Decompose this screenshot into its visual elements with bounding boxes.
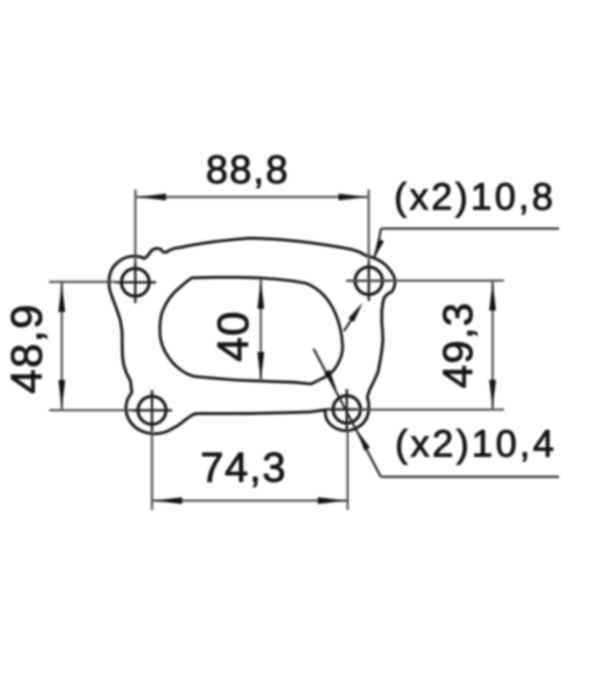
centerlines top-left hole <box>115 262 156 303</box>
dimension 88,8 extension lines <box>135 190 368 264</box>
dimension 48,9 line <box>61 282 63 410</box>
label (x2)10,8 leader arrows <box>374 239 385 260</box>
svg-text:(x2)10,4: (x2)10,4 <box>395 424 557 466</box>
label (x2)10,8 underline <box>381 227 559 229</box>
dimension 40 line <box>260 279 262 382</box>
inner exhaust port opening <box>160 277 343 384</box>
bolt hole top-right <box>355 267 382 294</box>
dimension 48,9 extension lines <box>49 282 133 410</box>
bolt hole bottom-left <box>138 396 166 424</box>
svg-text:48,9: 48,9 <box>3 303 52 393</box>
gasket outer outline <box>109 238 395 434</box>
dimension 48,9 arrows <box>58 283 65 312</box>
dimension 49,3 extension lines <box>346 281 504 410</box>
svg-text:74,3: 74,3 <box>200 444 287 491</box>
dimension 49,3 line <box>492 281 494 410</box>
svg-text:88,8: 88,8 <box>206 148 289 192</box>
centerlines bottom-right hole <box>326 389 368 430</box>
bolt hole top-left <box>121 268 149 296</box>
label (x2)10,4 underline <box>381 476 559 478</box>
label (x2)10,4 leader <box>314 349 381 477</box>
svg-text:49,3: 49,3 <box>434 302 481 389</box>
dimension 40 arrows <box>257 280 264 309</box>
label (x2)10,8 leader <box>374 229 381 259</box>
centerlines top-right hole <box>348 261 390 301</box>
bolt hole bottom-right <box>333 396 360 423</box>
centerlines bottom-left hole <box>131 390 172 431</box>
dimension 88,8 arrows <box>137 194 166 201</box>
dimension 74,3 extension lines <box>152 430 348 510</box>
label (x2)10,4 leader arrows <box>324 370 337 390</box>
dimension 49,3 arrows <box>489 282 496 311</box>
dimension 88,8 line <box>136 196 368 198</box>
svg-text:40: 40 <box>209 310 258 361</box>
dimension 74,3 line <box>152 500 348 502</box>
svg-text:(x2)10,8: (x2)10,8 <box>394 177 556 219</box>
dimension 74,3 arrows <box>153 497 182 504</box>
